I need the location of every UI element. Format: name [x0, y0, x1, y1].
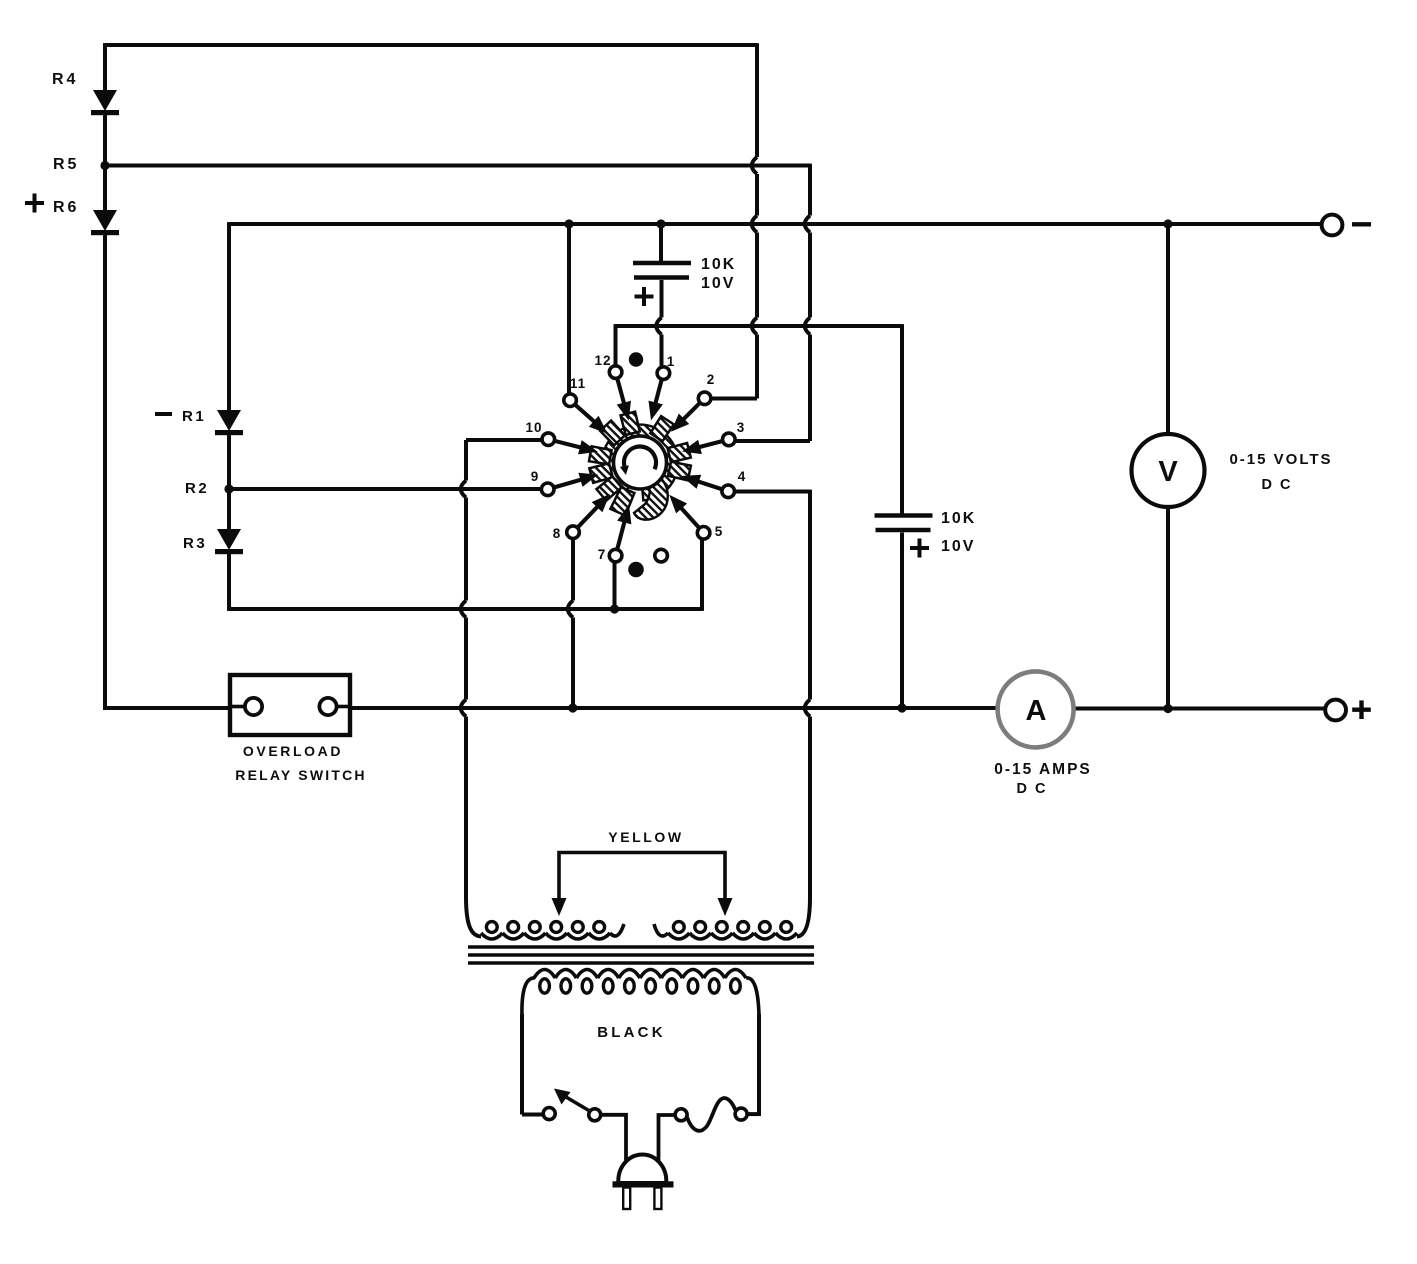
wire R2 to T9 — [229, 487, 542, 491]
wire T8 drop to plus rail, hop y609 — [571, 539, 575, 601]
svg-text:RELAY SWITCH: RELAY SWITCH — [235, 767, 366, 783]
rotary switch index dot bottom — [628, 562, 644, 578]
rotary switch terminal 8 — [567, 494, 610, 539]
wire y326 from T12 corner to C2 drop — [616, 324, 903, 328]
wire y609 bottom of inner box — [229, 607, 702, 611]
svg-text:10K: 10K — [941, 510, 976, 527]
svg-text:OVERLOAD: OVERLOAD — [243, 743, 343, 759]
rotary switch terminal 2 — [671, 392, 711, 432]
AC plug left prong — [623, 1188, 630, 1210]
svg-text:R1: R1 — [182, 408, 206, 425]
rotary switch terminal 3 — [682, 433, 735, 454]
transformer primary winding — [522, 970, 759, 1017]
svg-text:10: 10 — [525, 420, 542, 435]
svg-text:10K: 10K — [701, 256, 736, 273]
diode R3 — [217, 529, 241, 550]
rotary switch terminal 12 — [609, 366, 631, 421]
wire from T4 corner down to transformer secondary right end, hop y708 — [808, 490, 812, 700]
wire T12 riser — [614, 324, 618, 366]
polarity plus of C2 — [910, 546, 929, 550]
wire top rail from R4 to T2 drop — [105, 43, 757, 47]
svg-text:3: 3 — [737, 420, 746, 435]
svg-text:R2: R2 — [185, 480, 209, 497]
plus sign — [1352, 708, 1371, 712]
wire stub T3 — [735, 439, 810, 443]
rotary switch terminal 7 — [609, 505, 631, 562]
minus sign — [1352, 222, 1371, 226]
wire C2 bottom lead to plus rail — [900, 533, 904, 709]
rotary switch terminal 11 — [564, 394, 608, 434]
wire primary left lead down — [520, 1014, 524, 1115]
svg-text:10V: 10V — [701, 275, 735, 292]
transformer core — [468, 947, 814, 963]
cord connector right contact — [735, 1108, 747, 1120]
svg-text:2: 2 — [707, 372, 716, 387]
svg-text:5: 5 — [715, 524, 724, 539]
line switch blade — [554, 1089, 591, 1112]
svg-text:R6: R6 — [53, 199, 79, 216]
voltmeter V — [1132, 434, 1205, 507]
svg-text:0-15 AMPS: 0-15 AMPS — [994, 761, 1092, 778]
junction node C1 on negative rail — [656, 219, 665, 228]
rotary selector switch S1 rotor ring — [602, 425, 678, 501]
wire transformer secondary right lead curve — [797, 897, 810, 937]
capacitor C2 10K 10V — [875, 513, 933, 518]
rotary switch terminal 9 — [541, 473, 598, 496]
yellow tap arrow left — [552, 898, 567, 916]
wire stub T10 — [466, 438, 543, 442]
capacitor C1 10K 10V — [633, 261, 691, 266]
svg-text:V: V — [1158, 456, 1178, 488]
svg-text:A: A — [1026, 695, 1047, 727]
cord connector left contact — [675, 1109, 687, 1121]
wire negative rail y224 from inner box to minus terminal — [229, 222, 1322, 226]
wire left column between R4 and R6 — [103, 113, 107, 211]
flexible cord wave — [687, 1098, 735, 1131]
center tap bracket yellow — [559, 853, 725, 906]
AC plug base bar — [613, 1181, 674, 1187]
rotary switch terminal 4 — [681, 475, 734, 498]
polarity plus of C1 — [635, 295, 654, 299]
wire primary right lead down — [757, 1014, 761, 1116]
AC plug body — [618, 1155, 666, 1184]
svg-text:7: 7 — [598, 547, 607, 562]
wire left column to relay — [105, 706, 230, 710]
wire vertical x757 from top rail to T2, hops over y165 y224 y326 — [755, 43, 759, 157]
wire left column vertical top — [103, 43, 107, 91]
wire C1 bottom lead to T1, hop over y326 — [660, 280, 664, 318]
line switch left contact — [543, 1108, 555, 1120]
wire left column below R6 — [103, 233, 107, 710]
wire from T10 corner down to transformer secondary left end, hops y489 y609 y708 — [464, 440, 468, 481]
wire C1 top lead — [659, 224, 663, 262]
svg-text:D C: D C — [1017, 781, 1048, 797]
junction node T7 wire on y609 — [610, 604, 619, 613]
wire T5 drop — [700, 539, 704, 611]
wire vertical x569 from negative rail to T11 — [567, 224, 571, 395]
wire stub T4 — [734, 490, 810, 494]
wire T7 drop — [613, 562, 617, 609]
junction node voltmeter bottom — [1163, 704, 1172, 713]
wire between R1 and R3 — [227, 432, 231, 530]
rotary switch terminal 5 — [669, 495, 710, 539]
yellow tap arrow right — [718, 898, 733, 916]
svg-text:YELLOW: YELLOW — [608, 829, 683, 845]
rotary switch wiper arrow — [624, 447, 656, 470]
wire voltmeter bottom lead — [1166, 507, 1170, 709]
rotary switch open contact position 6 — [655, 549, 668, 562]
svg-text:4: 4 — [738, 469, 747, 484]
svg-text:9: 9 — [531, 469, 540, 484]
output terminal minus — [1322, 215, 1343, 236]
svg-text:R5: R5 — [53, 156, 79, 173]
rotary switch terminal 1 — [649, 367, 670, 421]
ammeter A — [998, 671, 1074, 747]
wire stub T2 — [710, 397, 757, 401]
transformer T1 secondary winding right half — [654, 922, 797, 939]
junction node voltmeter top — [1163, 219, 1172, 228]
svg-text:10V: 10V — [941, 538, 975, 555]
wire transformer secondary left lead curve — [466, 897, 481, 937]
rotary switch rotor hub — [614, 436, 667, 489]
svg-text:0-15 VOLTS: 0-15 VOLTS — [1229, 451, 1332, 468]
wire to line switch — [522, 1113, 544, 1117]
wire plug right prong to cord — [659, 1115, 676, 1172]
junction node C2 bottom — [897, 703, 906, 712]
wire ammeter to plus terminal — [1073, 707, 1326, 711]
diode R4 — [93, 90, 117, 111]
svg-text:BLACK: BLACK — [597, 1024, 666, 1041]
relay left contact — [230, 698, 262, 715]
line switch right contact — [589, 1109, 601, 1121]
wire R5 rail from left column to T3 drop — [105, 164, 810, 168]
junction node x569 on negative rail — [564, 219, 573, 228]
svg-text:R3: R3 — [183, 535, 207, 552]
rotary switch rotor teeth — [589, 412, 691, 516]
wire voltmeter top lead — [1166, 224, 1170, 434]
wire switch to plug left prong — [601, 1115, 626, 1172]
polarity plus output marker — [25, 201, 44, 205]
overload relay switch box — [230, 675, 350, 735]
svg-text:8: 8 — [553, 526, 562, 541]
junction node R2 — [224, 484, 233, 493]
junction node T8 wire on plus rail — [568, 703, 577, 712]
svg-text:11: 11 — [570, 376, 586, 391]
svg-text:1: 1 — [667, 354, 676, 369]
AC plug right prong — [654, 1188, 661, 1210]
svg-text:R4: R4 — [52, 71, 78, 88]
diode R6 — [93, 210, 117, 231]
wire vertical x810 from R5 rail to T3, hops over y224 y326 — [808, 164, 812, 216]
rotary switch terminal 10 — [542, 433, 598, 454]
rotary switch index dot top — [629, 352, 643, 366]
wire inner box left vertical upper — [227, 222, 231, 411]
svg-text:12: 12 — [594, 353, 611, 368]
relay right contact — [319, 698, 350, 715]
rotary switch rotor bottom tail — [634, 477, 668, 520]
output terminal plus — [1325, 700, 1346, 721]
diode R1 — [217, 410, 241, 431]
junction node R5 — [100, 161, 109, 170]
wire relay to ammeter — [350, 706, 998, 710]
svg-text:D C: D C — [1262, 477, 1293, 493]
wire vertical x902 upper to C2 — [900, 324, 904, 514]
wire inner box left vertical lower — [227, 551, 231, 611]
transformer T1 secondary winding left half — [481, 922, 624, 939]
polarity minus marker near R1 — [155, 412, 172, 416]
wire cord to primary right lead — [747, 1112, 759, 1116]
